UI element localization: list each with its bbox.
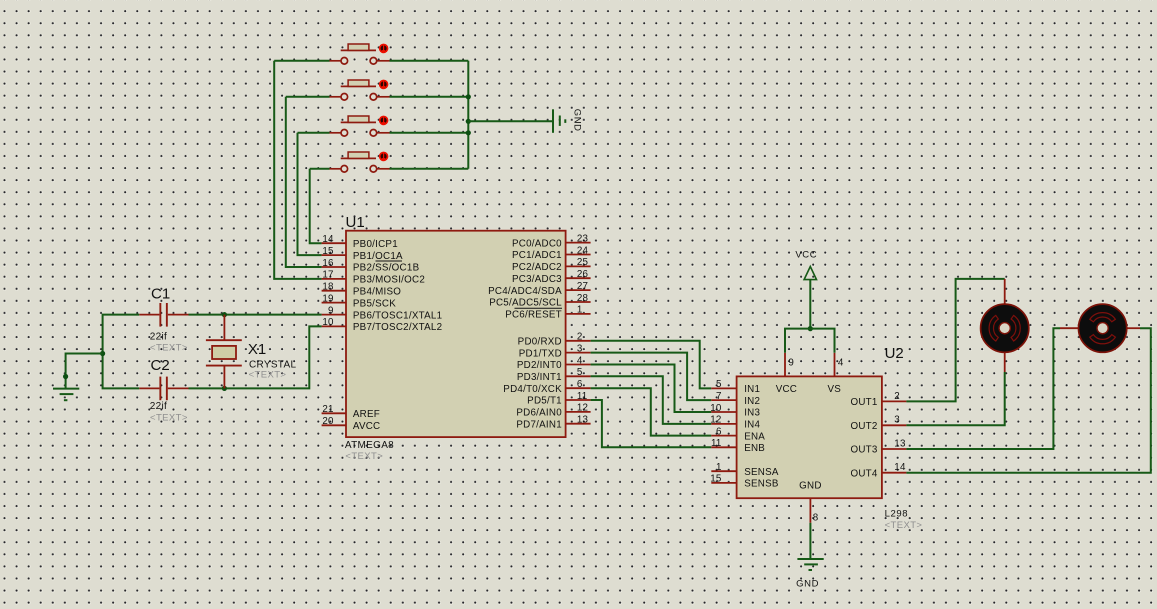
wire VCC bar to pin4 [810, 329, 834, 353]
wire U2 OUT2 to motor M1 bottom [906, 372, 1004, 425]
IC U2 L298 body [737, 376, 882, 498]
svg-text:PB6/TOSC1/XTAL1: PB6/TOSC1/XTAL1 [353, 310, 442, 321]
U1 pin 5 PD3 stub [566, 375, 591, 377]
wire VCC bar to pin9 [785, 329, 810, 353]
motor M2 left pin [1060, 327, 1078, 329]
svg-text:PD6/AIN0: PD6/AIN0 [516, 408, 562, 419]
svg-text:21: 21 [322, 404, 333, 415]
svg-text:22if: 22if [150, 401, 167, 412]
junction C2 / crystal bottom [222, 386, 227, 391]
wire C1 left to trunk [103, 315, 140, 354]
wire SW3 left terminal to vertical [298, 132, 330, 134]
svg-text:AREF: AREF [353, 409, 380, 420]
power VCC arrow symbol [804, 267, 816, 280]
svg-text:10: 10 [322, 317, 334, 328]
wire U1 pin11 to U2 ENB [591, 400, 712, 447]
svg-text:11: 11 [577, 391, 588, 402]
wire U1 pin2 to U2 IN1 [591, 341, 712, 389]
U2 pin 15 SENSB stub [711, 482, 736, 484]
svg-text:U2: U2 [885, 345, 904, 362]
U1 pin 27 PC4 stub [566, 289, 591, 291]
U1 pin 23 PC0 stub [566, 242, 591, 244]
U1 pin 18 PB4 stub [322, 290, 346, 292]
U1 pin 3 PD1 stub [566, 352, 591, 354]
svg-text:GND: GND [796, 579, 819, 590]
svg-text:<TEXT>: <TEXT> [150, 343, 188, 354]
U2 pin 4 VS stub (top) [834, 353, 836, 377]
svg-text:C1: C1 [151, 286, 170, 303]
svg-text:X1: X1 [248, 341, 266, 358]
svg-text:GND: GND [572, 109, 583, 132]
svg-text:3: 3 [894, 415, 900, 426]
motor M2 [1079, 304, 1127, 352]
U1 pin 19 PB5 stub [322, 302, 346, 304]
svg-text:PD7/AIN1: PD7/AIN1 [516, 419, 562, 430]
U2 pin 9 VCC stub (top) [784, 353, 786, 377]
svg-text:15: 15 [322, 246, 334, 257]
svg-text:5: 5 [716, 379, 722, 390]
wire SW2 left terminal to vertical [286, 96, 330, 98]
svg-text:23: 23 [577, 233, 589, 244]
svg-text:PB0/ICP1: PB0/ICP1 [353, 239, 398, 250]
svg-text:L298: L298 [885, 509, 909, 520]
svg-text:27: 27 [577, 281, 588, 292]
SW4 red actuator marker [379, 152, 389, 162]
motor M1 [981, 304, 1029, 352]
junction ground terminal [63, 374, 68, 379]
U2 pin 6 ENA stub [711, 435, 736, 437]
svg-text:13: 13 [894, 438, 906, 449]
U1 pin 1 PC6 stub [566, 313, 591, 315]
svg-text:7: 7 [716, 391, 722, 402]
U2 pin 10 IN3 stub [711, 411, 736, 413]
wire U2 OUT1 to motor M1 top [906, 279, 1004, 402]
svg-text:24: 24 [577, 245, 589, 256]
capacitor C2 [139, 377, 188, 401]
wire SW3 right terminal to trunk [390, 132, 469, 134]
svg-text:ATMEGA8: ATMEGA8 [345, 440, 394, 451]
U1 pin 10 PB7 stub [322, 325, 346, 327]
pin name PB2/SS/OC1B with SS overbar [353, 261, 420, 274]
IC U1 ATMEGA8 body [346, 231, 566, 437]
wire U2 OUT3 to motor M2 left [906, 328, 1060, 449]
pin name PC6/RESET with RESET overbar [505, 308, 562, 320]
SW3 red actuator marker [379, 116, 389, 126]
svg-text:9: 9 [328, 305, 334, 316]
wire C1 right to U1 pin 9 [189, 314, 322, 316]
U1 pin 13 PD7 stub [566, 423, 591, 425]
svg-text:4: 4 [838, 357, 844, 368]
U1 pin 17 PB3 stub [322, 278, 346, 280]
svg-text:10: 10 [710, 403, 722, 414]
wire vertical SW1 to U1 pin 17 [274, 61, 321, 279]
svg-text:5: 5 [577, 367, 583, 378]
svg-text:PD1/TXD: PD1/TXD [519, 348, 562, 359]
svg-text:PB4/MISO: PB4/MISO [353, 286, 401, 297]
U2 pin 5 IN1 stub [711, 387, 736, 389]
motor M1 bottom pin [1004, 352, 1006, 372]
svg-text:<TEXT>: <TEXT> [345, 451, 383, 462]
svg-text:12: 12 [577, 403, 588, 414]
svg-text:OUT2: OUT2 [850, 421, 877, 432]
svg-text:25: 25 [577, 257, 589, 268]
junction trunk / SW3 [466, 130, 471, 135]
wire SW4 left terminal to vertical [310, 168, 330, 170]
wire SW1 right terminal to trunk [390, 60, 469, 62]
svg-text:22if: 22if [150, 332, 167, 343]
SW1 red actuator marker [379, 44, 389, 54]
svg-text:OUT4: OUT4 [850, 468, 877, 479]
wire button trunk vertical [467, 61, 469, 169]
U1 pin 14 PB0 stub [322, 242, 346, 244]
push button SW1 body [330, 44, 390, 64]
wire vertical SW4 to U1 pin 14 [310, 169, 322, 243]
svg-text:PC3/ADC3: PC3/ADC3 [512, 274, 562, 285]
svg-text:PB7/TOSC2/XTAL2: PB7/TOSC2/XTAL2 [353, 322, 442, 333]
wire vertical SW3 to U1 pin 15 [298, 133, 322, 255]
ground symbol (U2) [797, 559, 823, 570]
wire U1 pin4 to U2 IN3 [591, 365, 712, 413]
svg-text:2: 2 [894, 391, 900, 402]
wire trunk to ground symbol [468, 120, 553, 122]
U1 pin 15 PB1 stub [322, 254, 346, 256]
svg-text:ENA: ENA [744, 431, 765, 442]
wire SW2 right terminal to trunk [390, 96, 469, 98]
U1 pin 24 PC1 stub [566, 254, 591, 256]
svg-text:VCC: VCC [795, 250, 817, 261]
U1 pin 25 PC2 stub [566, 265, 591, 267]
SW2 red actuator marker [379, 80, 389, 90]
svg-text:6: 6 [716, 426, 722, 437]
svg-text:PB5/SCK: PB5/SCK [353, 298, 396, 309]
U1 pin 11 PD5 stub [566, 399, 591, 401]
U2 pin 3 OUT2 stub [882, 424, 907, 426]
wire U2 OUT4 to motor M2 right [906, 328, 1150, 473]
svg-text:C2: C2 [151, 357, 170, 374]
svg-text:11: 11 [711, 438, 722, 449]
wire VCC stem [809, 280, 811, 329]
wire vertical SW2 to U1 pin 16 [286, 97, 322, 267]
svg-text:PC6/RESET: PC6/RESET [505, 310, 562, 321]
svg-text:14: 14 [322, 234, 334, 245]
junction trunk / SW2 [466, 94, 471, 99]
svg-text:<TEXT>: <TEXT> [249, 370, 287, 381]
svg-text:PD3/INT1: PD3/INT1 [517, 372, 562, 383]
U1 pin 21 AREF stub [322, 412, 346, 414]
svg-text:VCC: VCC [776, 384, 797, 395]
svg-text:2: 2 [577, 332, 583, 343]
svg-text:PC0/ADC0: PC0/ADC0 [512, 238, 562, 249]
wire U1 pin6 to U2 ENA [591, 388, 712, 435]
U1 pin 20 AVCC stub [322, 424, 346, 426]
svg-text:16: 16 [322, 258, 334, 269]
svg-text:15: 15 [710, 474, 722, 485]
U2 pin 7 IN2 stub [711, 399, 736, 401]
svg-text:8: 8 [813, 512, 819, 523]
svg-text:<TEXT>: <TEXT> [150, 413, 188, 424]
svg-text:AVCC: AVCC [353, 421, 381, 432]
svg-text:IN4: IN4 [744, 420, 760, 431]
junction C1 / crystal top [222, 312, 227, 317]
U1 pin 12 PD6 stub [566, 411, 591, 413]
svg-text:PC5/ADC5/SCL: PC5/ADC5/SCL [489, 298, 562, 309]
svg-text:1: 1 [577, 305, 583, 316]
svg-text:ENB: ENB [744, 443, 765, 454]
svg-text:1: 1 [716, 462, 722, 473]
svg-text:PD4/T0/XCK: PD4/T0/XCK [503, 384, 562, 395]
svg-text:17: 17 [322, 270, 333, 281]
wire left trunk to ground [66, 354, 103, 389]
svg-text:PB3/MOSI/OC2: PB3/MOSI/OC2 [353, 275, 425, 286]
svg-text:PC1/ADC1: PC1/ADC1 [512, 250, 562, 261]
U2 pin 14 OUT4 stub [882, 472, 907, 474]
U2 pin 1 SENSA stub [711, 470, 736, 472]
junction VCC node [808, 326, 813, 331]
svg-text:IN2: IN2 [744, 396, 760, 407]
svg-text:13: 13 [577, 415, 589, 426]
wire C2 left to trunk [103, 354, 140, 389]
U2 pin 2 OUT1 stub [882, 400, 907, 402]
U1 pin 9 PB6 stub [322, 314, 346, 316]
U1 pin 16 PB2 stub [322, 266, 346, 268]
svg-text:VS: VS [828, 384, 842, 395]
svg-text:<TEXT>: <TEXT> [885, 520, 923, 531]
svg-text:SENSB: SENSB [744, 479, 779, 490]
junction left trunk / ground branch [100, 351, 105, 356]
motor M1 top pin [1004, 279, 1006, 304]
svg-text:12: 12 [710, 415, 721, 426]
svg-text:GND: GND [799, 481, 822, 492]
svg-text:19: 19 [322, 293, 333, 304]
svg-text:14: 14 [894, 462, 906, 473]
U1 pin 6 PD4 stub [566, 387, 591, 389]
junction trunk / GND branch [466, 119, 471, 124]
svg-text:20: 20 [322, 416, 334, 427]
svg-text:PC4/ADC4/SDA: PC4/ADC4/SDA [488, 286, 562, 297]
svg-text:PD0/RXD: PD0/RXD [518, 337, 562, 348]
svg-text:IN1: IN1 [744, 384, 760, 395]
wire SW4 right terminal to trunk [390, 168, 469, 170]
motor M2 right pin [1127, 327, 1140, 329]
svg-text:PD5/T1: PD5/T1 [527, 396, 562, 407]
svg-text:28: 28 [577, 293, 589, 304]
wire C2 right to pin10 vertical [189, 326, 322, 388]
wire SW1 left terminal to vertical [274, 60, 329, 62]
wire U1 pin3 to U2 IN2 [591, 353, 712, 401]
U1 pin 2 PD0 stub [566, 340, 591, 342]
svg-text:PD2/INT0: PD2/INT0 [517, 360, 562, 371]
svg-text:OUT3: OUT3 [850, 445, 877, 456]
svg-text:18: 18 [322, 282, 334, 293]
svg-text:9: 9 [788, 357, 794, 368]
svg-text:3: 3 [577, 343, 583, 354]
U2 pin 11 ENB stub [711, 446, 736, 448]
U2 pin 13 OUT3 stub [882, 448, 907, 450]
U1 pin 28 PC5 stub [566, 301, 591, 303]
svg-text:6: 6 [577, 379, 583, 390]
U1 pin 26 PC3 stub [566, 277, 591, 279]
svg-text:OUT1: OUT1 [850, 397, 877, 408]
capacitor C1 [139, 303, 188, 327]
svg-text:4: 4 [577, 355, 583, 366]
U2 pin 12 IN4 stub [711, 423, 736, 425]
svg-text:PB1/OC1A: PB1/OC1A [353, 251, 403, 262]
ground symbol (crystal circuit) [53, 389, 79, 401]
ground symbol (buttons, rotated) [553, 109, 565, 133]
svg-text:26: 26 [577, 269, 589, 280]
svg-text:PB2/SS/OC1B: PB2/SS/OC1B [353, 263, 420, 274]
svg-text:SENSA: SENSA [744, 467, 779, 478]
wire U1 pin5 to U2 IN4 [591, 376, 712, 424]
push button SW2 body [330, 80, 390, 100]
U2 pin 8 GND stub (bottom) [809, 498, 811, 523]
push button SW4 body [330, 152, 390, 172]
wire U2 pin8 to ground [809, 523, 811, 559]
svg-text:PC2/ADC2: PC2/ADC2 [512, 262, 562, 273]
crystal X1 [206, 315, 242, 389]
svg-text:U1: U1 [346, 214, 365, 231]
push button SW3 body [330, 116, 390, 136]
svg-text:IN3: IN3 [744, 408, 760, 419]
U1 pin 4 PD2 stub [566, 364, 591, 366]
